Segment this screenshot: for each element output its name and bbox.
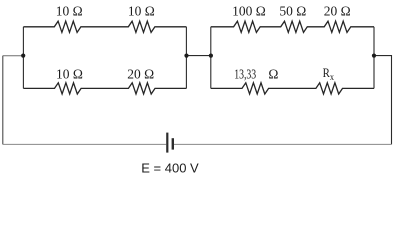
- svg-text:20 Ω: 20 Ω: [127, 66, 154, 81]
- svg-text:Rx: Rx: [323, 66, 335, 83]
- svg-text:10 Ω: 10 Ω: [56, 66, 83, 81]
- svg-text:Ω: Ω: [268, 66, 278, 81]
- svg-text:20 Ω: 20 Ω: [324, 3, 351, 18]
- svg-text:50 Ω: 50 Ω: [279, 3, 306, 18]
- svg-text:10 Ω: 10 Ω: [128, 3, 155, 18]
- svg-text:10 Ω: 10 Ω: [56, 3, 83, 18]
- svg-text:13,33: 13,33: [234, 66, 256, 81]
- svg-text:100 Ω: 100 Ω: [232, 3, 266, 18]
- svg-text:E = 400 V: E = 400 V: [141, 161, 199, 176]
